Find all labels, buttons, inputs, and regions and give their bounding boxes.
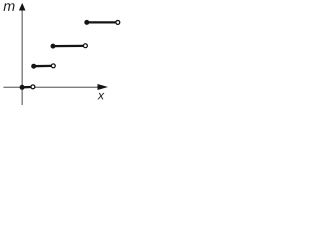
y-axis arrowhead bbox=[19, 3, 26, 11]
x-axis arrowhead bbox=[98, 84, 109, 90]
step 3 closed endpoint bbox=[51, 44, 56, 49]
axis label x bbox=[97, 93, 104, 100]
x-axis bbox=[3, 86, 99, 88]
background bbox=[0, 0, 123, 107]
step segment 4 wire bbox=[87, 21, 116, 23]
step 3 open endpoint bbox=[83, 44, 87, 48]
step 4 open endpoint bbox=[116, 20, 120, 24]
step 1 closed endpoint bbox=[20, 85, 25, 90]
step segment 2 wire bbox=[34, 65, 52, 68]
step 1 open endpoint bbox=[31, 85, 35, 89]
step 2 open endpoint bbox=[51, 64, 55, 68]
step 2 closed endpoint bbox=[31, 64, 36, 69]
y-axis (m axis) bbox=[21, 5, 23, 105]
axis label m bbox=[4, 3, 15, 11]
step segment 3 wire bbox=[53, 45, 84, 47]
step segment 1 wire bbox=[22, 86, 31, 89]
step 4 closed endpoint bbox=[84, 20, 89, 25]
